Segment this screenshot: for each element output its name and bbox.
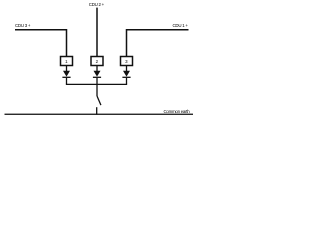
diode D2 (93, 71, 101, 78)
diode D1 (62, 71, 70, 78)
wire fuse 1 to diode D1 (66, 66, 68, 72)
wire fuse 3 to diode D3 (126, 66, 128, 72)
wire from CDU 3 + label to fuse 1 (15, 30, 67, 57)
fuse 3 box (121, 57, 133, 66)
wire from CDU 1 + label to fuse 3 (127, 30, 189, 57)
common earth line (5, 113, 194, 115)
wire bus to switch S1 (96, 85, 98, 97)
fuse 1 number label (65, 60, 67, 64)
fuse 2 number label (96, 60, 98, 64)
wire diode D1 to bus (66, 78, 68, 85)
wire diode D2 to bus (96, 78, 98, 85)
fuse 3 number label (125, 60, 127, 64)
wire switch S1 bottom contact to earth line (96, 107, 98, 115)
wire fuse 2 to diode D2 (96, 66, 98, 72)
diode D3 (122, 71, 130, 78)
node CDU 2 + label (89, 3, 104, 7)
fuse 2 box (91, 57, 103, 66)
wire diode D3 to bus (126, 78, 128, 85)
node CDU 1 + label (173, 24, 188, 28)
fuse 1 box (61, 57, 73, 66)
node CDU 3 + label (15, 24, 30, 28)
bus wire joining diodes (66, 83, 127, 85)
switch S1 blade (open) (97, 96, 101, 105)
wire from CDU 2 + label to fuse 2 (96, 8, 98, 57)
node Common earth label (164, 110, 190, 114)
